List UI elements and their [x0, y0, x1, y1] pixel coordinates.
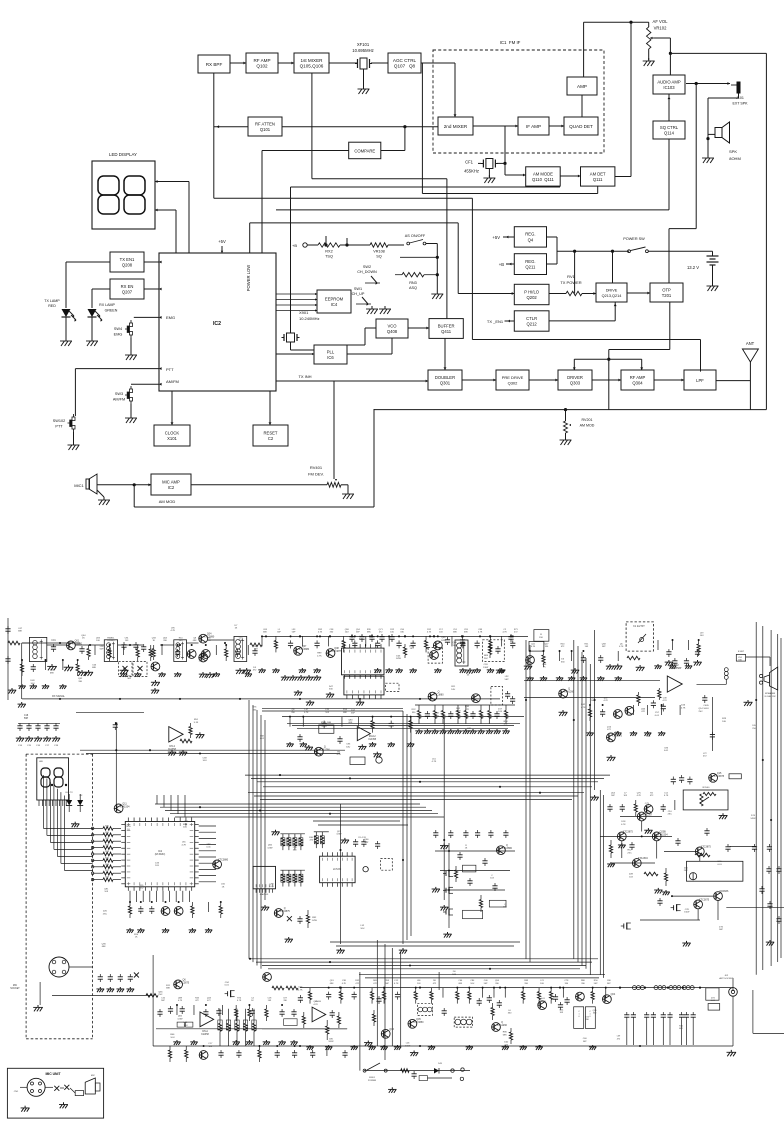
svg-text:56P: 56P — [100, 649, 104, 651]
svg-text:TX LAMP: TX LAMP — [44, 299, 60, 303]
svg-text:EMG: EMG — [114, 333, 123, 337]
svg-text:KTC3875: KTC3875 — [699, 898, 710, 901]
svg-text:BUFFER: BUFFER — [438, 323, 455, 328]
svg-text:15K: 15K — [539, 637, 543, 639]
svg-text:Q111: Q111 — [593, 177, 603, 182]
svg-text:4.7K: 4.7K — [178, 1000, 183, 1002]
svg-text:SW3: SW3 — [115, 392, 123, 396]
svg-text:4.7K: 4.7K — [342, 983, 347, 985]
svg-text:MIC AMP: MIC AMP — [162, 479, 180, 484]
svg-text:Q207: Q207 — [122, 290, 133, 295]
svg-text:RV1: RV1 — [567, 274, 575, 279]
svg-text:4.7K: 4.7K — [478, 632, 483, 634]
svg-text:SW102: SW102 — [53, 419, 65, 423]
svg-text:56P: 56P — [594, 983, 598, 985]
svg-text:4.7K: 4.7K — [581, 707, 586, 709]
svg-text:CN1: CN1 — [14, 1091, 19, 1093]
svg-text:Q04: Q04 — [611, 993, 616, 996]
svg-text:SPK: SPK — [729, 149, 737, 154]
svg-text:68K: 68K — [50, 672, 54, 674]
svg-text:4.7K: 4.7K — [637, 795, 642, 797]
svg-text:KTC3875: KTC3875 — [701, 845, 712, 848]
svg-text:RX EN: RX EN — [121, 284, 134, 289]
svg-text:KTA1266: KTA1266 — [497, 1024, 507, 1027]
svg-text:OTP: OTP — [662, 287, 671, 292]
svg-text:56P: 56P — [127, 678, 131, 680]
svg-text:AM MOD: AM MOD — [159, 499, 176, 504]
svg-text:68K: 68K — [263, 632, 267, 634]
svg-text:4.7K: 4.7K — [171, 630, 176, 632]
svg-text:4.7K: 4.7K — [239, 640, 244, 642]
svg-text:68K: 68K — [503, 1034, 507, 1036]
svg-text:4.7K: 4.7K — [313, 1004, 318, 1006]
svg-text:100U: 100U — [703, 708, 709, 710]
svg-text:Q212: Q212 — [527, 322, 538, 327]
svg-text:4.7K: 4.7K — [304, 712, 309, 714]
svg-text:EMG: EMG — [166, 315, 175, 320]
svg-text:10U: 10U — [96, 640, 100, 642]
svg-text:56P: 56P — [277, 632, 281, 634]
svg-text:(M-SMC): (M-SMC) — [155, 852, 166, 856]
svg-text:4.7K: 4.7K — [531, 646, 536, 648]
svg-text:Q101: Q101 — [260, 127, 271, 132]
svg-text:PTT: PTT — [55, 425, 63, 429]
svg-text:4.7K: 4.7K — [394, 983, 399, 985]
svg-text:AF VOL: AF VOL — [653, 19, 669, 24]
svg-text:POWER SW: POWER SW — [623, 237, 645, 241]
svg-text:56P: 56P — [484, 983, 488, 985]
svg-text:56P: 56P — [607, 983, 611, 985]
svg-text:2SC: 2SC — [752, 728, 757, 730]
svg-text:2SC: 2SC — [668, 814, 673, 816]
svg-text:C01: C01 — [51, 639, 56, 642]
svg-text:LED DISPLAY: LED DISPLAY — [109, 152, 137, 157]
svg-text:COMPARE: COMPARE — [354, 148, 375, 153]
svg-text:68K: 68K — [679, 1028, 683, 1030]
svg-text:KTA1266: KTA1266 — [320, 749, 330, 752]
svg-text:RX SIGNAL: RX SIGNAL — [52, 695, 65, 698]
svg-text:56P: 56P — [292, 632, 296, 634]
svg-text:56P: 56P — [24, 718, 29, 720]
svg-text:RX LAMP: RX LAMP — [99, 303, 115, 307]
svg-text:IC1 FM IF: IC1 FM IF — [500, 40, 521, 45]
svg-text:ANT SOCKET: ANT SOCKET — [719, 977, 734, 980]
svg-text:IC103: IC103 — [663, 85, 675, 90]
svg-text:AMP: AMP — [577, 84, 587, 89]
svg-text:RESET: RESET — [264, 430, 278, 435]
svg-text:SQ: SQ — [376, 255, 382, 259]
svg-text:Q06: Q06 — [389, 1028, 394, 1031]
svg-text:10U: 10U — [470, 983, 474, 985]
svg-text:LPF: LPF — [696, 378, 704, 383]
svg-text:X901: X901 — [299, 310, 309, 315]
svg-text:68K: 68K — [18, 631, 22, 633]
svg-text:10U: 10U — [203, 760, 207, 762]
svg-text:AUDIO AMP: AUDIO AMP — [657, 79, 680, 84]
svg-text:SPEAKER: SPEAKER — [765, 692, 776, 695]
svg-text:Q303: Q303 — [570, 381, 581, 386]
svg-text:56P: 56P — [356, 632, 360, 634]
svg-text:68K: 68K — [453, 632, 457, 634]
svg-text:PLL: PLL — [327, 349, 335, 354]
svg-text:1/4W: 1/4W — [541, 1001, 546, 1003]
svg-text:CH_UP: CH_UP — [352, 292, 365, 296]
svg-text:TX POWER: TX POWER — [560, 280, 581, 285]
svg-text:KTC3875: KTC3875 — [331, 650, 342, 653]
svg-text:IC5-A: IC5-A — [202, 1030, 208, 1033]
svg-text:RV500: RV500 — [703, 787, 710, 789]
svg-text:68K: 68K — [102, 946, 106, 948]
svg-text:2SC: 2SC — [199, 661, 204, 663]
svg-text:68K: 68K — [193, 640, 197, 642]
svg-text:+B: +B — [292, 243, 297, 248]
svg-text:10U: 10U — [183, 827, 187, 829]
svg-text:10U: 10U — [179, 640, 183, 642]
svg-text:AM DET: AM DET — [590, 171, 606, 176]
svg-text:56P: 56P — [719, 929, 723, 931]
svg-text:RG3-2: RG3-2 — [369, 736, 376, 738]
svg-text:4.7K: 4.7K — [427, 632, 432, 634]
svg-text:Q202: Q202 — [527, 295, 538, 300]
svg-text:4.7K: 4.7K — [664, 795, 669, 797]
svg-text:RF AMP: RF AMP — [253, 58, 270, 63]
svg-text:KTC3880: KTC3880 — [502, 847, 513, 850]
svg-text:CTLR: CTLR — [526, 316, 537, 321]
svg-text:AM/FM: AM/FM — [113, 398, 125, 402]
svg-text:P HI/LO: P HI/LO — [524, 289, 540, 294]
svg-text:C18: C18 — [24, 715, 29, 717]
svg-text:8 OHM 2W: 8 OHM 2W — [765, 696, 777, 698]
svg-text:POWER LOW: POWER LOW — [246, 265, 251, 292]
svg-text:Q208: Q208 — [122, 263, 133, 268]
svg-text:SW4: SW4 — [114, 327, 122, 331]
svg-text:AM MOD: AM MOD — [580, 424, 595, 428]
svg-text:REG.: REG. — [525, 232, 535, 237]
svg-text:56P: 56P — [602, 646, 606, 648]
svg-text:R 4R7: R 4R7 — [738, 651, 745, 653]
svg-text:ANT: ANT — [746, 341, 755, 346]
svg-text:SQ CTRL: SQ CTRL — [660, 125, 679, 130]
svg-text:4.7K: 4.7K — [237, 1000, 242, 1002]
svg-text:KTA1504: KTA1504 — [658, 833, 668, 836]
svg-text:TX _EN1: TX _EN1 — [487, 319, 504, 324]
svg-text:KTA1504: KTA1504 — [638, 857, 648, 860]
svg-text:KTC3875: KTC3875 — [280, 910, 291, 913]
svg-text:KIA358: KIA358 — [369, 738, 377, 741]
svg-text:Q213,Q214: Q213,Q214 — [602, 294, 622, 298]
svg-text:10.240MHz: 10.240MHz — [299, 316, 319, 321]
svg-text:KTC3875: KTC3875 — [714, 775, 725, 778]
svg-text:MIC: MIC — [13, 985, 18, 987]
svg-text:POWER: POWER — [368, 1080, 377, 1082]
svg-text:IC2: IC2 — [168, 485, 175, 490]
svg-text:CF1: CF1 — [465, 160, 474, 165]
svg-text:10U: 10U — [139, 888, 143, 890]
svg-text:10U: 10U — [170, 1037, 174, 1039]
svg-text:Q110 Q111: Q110 Q111 — [532, 177, 555, 182]
svg-text:8OHM: 8OHM — [729, 156, 741, 161]
svg-text:10.695MHz: 10.695MHz — [352, 48, 373, 53]
svg-text:KTC3880: KTC3880 — [433, 694, 444, 697]
svg-text:K1 2A/7FT: K1 2A/7FT — [633, 625, 645, 628]
svg-text:4.7K: 4.7K — [621, 824, 626, 826]
svg-text:SW1: SW1 — [354, 287, 362, 291]
svg-text:RF ATTEN: RF ATTEN — [255, 121, 275, 126]
svg-text:AM/FM: AM/FM — [166, 379, 179, 384]
svg-text:PRE DRIVE: PRE DRIVE — [502, 375, 524, 380]
svg-text:ASQ: ASQ — [409, 286, 417, 290]
svg-text:2SC: 2SC — [158, 994, 163, 996]
svg-text:PTT: PTT — [166, 367, 174, 372]
svg-text:KTC3880: KTC3880 — [413, 1021, 424, 1024]
svg-text:10U: 10U — [390, 632, 394, 634]
svg-text:68K: 68K — [92, 667, 96, 669]
svg-text:KTA1266: KTA1266 — [564, 691, 574, 694]
svg-text:KTC3880: KTC3880 — [299, 648, 310, 651]
svg-text:Q304: Q304 — [632, 381, 643, 386]
svg-text:T201: T201 — [662, 293, 672, 298]
svg-text:68K: 68K — [330, 983, 334, 985]
svg-text:2nd MIXER: 2nd MIXER — [444, 124, 468, 129]
svg-text:4.7K: 4.7K — [337, 754, 342, 756]
svg-text:MIC1: MIC1 — [74, 483, 84, 488]
svg-text:SOCKET: SOCKET — [10, 988, 20, 990]
svg-text:XF101: XF101 — [357, 42, 370, 47]
svg-text:RED: RED — [48, 304, 56, 308]
svg-text:KD9936: KD9936 — [720, 890, 729, 893]
svg-text:KTC3875: KTC3875 — [179, 981, 190, 984]
svg-text:DOUBLER: DOUBLER — [435, 375, 455, 380]
svg-text:10U: 10U — [722, 721, 726, 723]
svg-text:DRIVER: DRIVER — [567, 375, 583, 380]
svg-text:Q107 Q8: Q107 Q8 — [394, 64, 416, 69]
svg-text:FM DEV.: FM DEV. — [308, 472, 324, 477]
svg-text:Q211: Q211 — [525, 265, 536, 270]
svg-text:GREEN: GREEN — [105, 309, 118, 313]
svg-text:EXT SPK: EXT SPK — [732, 102, 748, 106]
svg-text:4.7K: 4.7K — [681, 708, 686, 710]
svg-text:SW2: SW2 — [363, 265, 371, 269]
svg-text:Q4: Q4 — [528, 238, 534, 243]
svg-text:REG.: REG. — [525, 259, 535, 264]
svg-text:56P: 56P — [385, 983, 389, 985]
svg-text:56P: 56P — [364, 842, 368, 844]
svg-text:KIA358: KIA358 — [201, 1033, 209, 1036]
svg-text:AGC CTRL: AGC CTRL — [393, 58, 417, 63]
svg-text:4.7K: 4.7K — [298, 990, 303, 992]
svg-text:MIC: MIC — [91, 1075, 95, 1077]
svg-text:56P: 56P — [611, 795, 615, 797]
svg-text:KBC307: KBC307 — [643, 814, 653, 817]
svg-text:CH_DOWN: CH_DOWN — [357, 270, 377, 274]
svg-text:56P: 56P — [351, 713, 355, 715]
svg-text:455KHz: 455KHz — [464, 169, 479, 174]
svg-text:4.7K: 4.7K — [318, 632, 323, 634]
svg-text:10U: 10U — [700, 635, 704, 637]
svg-text:68K: 68K — [367, 632, 371, 634]
svg-text:Q102: Q102 — [256, 64, 268, 69]
svg-text:2SC: 2SC — [684, 870, 689, 872]
svg-text:MIC UNIT: MIC UNIT — [45, 1072, 61, 1076]
svg-text:2SC: 2SC — [627, 852, 632, 854]
svg-text:RF AMP: RF AMP — [630, 375, 646, 380]
svg-text:2SC: 2SC — [698, 711, 703, 713]
svg-text:4.7K: 4.7K — [603, 700, 608, 702]
svg-text:X101: X101 — [167, 436, 177, 441]
svg-text:AM MODE: AM MODE — [533, 171, 553, 176]
svg-text:VR108: VR108 — [373, 250, 385, 254]
svg-text:TSQ: TSQ — [325, 255, 333, 259]
svg-text:4.7K: 4.7K — [503, 632, 508, 634]
svg-text:Q114: Q114 — [664, 131, 675, 136]
svg-text:LED TX: LED TX — [65, 792, 73, 794]
svg-text:4.7K: 4.7K — [662, 700, 667, 702]
svg-text:QUAD DET: QUAD DET — [569, 124, 593, 129]
svg-text:IC6: IC6 — [327, 355, 334, 360]
svg-text:Q411: Q411 — [441, 329, 452, 334]
svg-text:4.7K: 4.7K — [317, 655, 322, 657]
svg-text:0: 0 — [578, 1016, 579, 1018]
svg-text:68K: 68K — [464, 632, 468, 634]
svg-text:RN3: RN3 — [409, 281, 417, 285]
svg-text:KTC3875: KTC3875 — [623, 830, 634, 833]
svg-text:10U: 10U — [183, 1025, 187, 1027]
svg-text:Q408: Q408 — [387, 329, 398, 334]
svg-text:DRIVE: DRIVE — [606, 288, 618, 292]
svg-text:10U: 10U — [346, 746, 350, 748]
svg-text:68K: 68K — [343, 712, 347, 714]
svg-text:AS ON/OFF: AS ON/OFF — [405, 234, 426, 238]
svg-text:SW01: SW01 — [369, 1077, 376, 1079]
svg-text:1st MIXER: 1st MIXER — [301, 58, 324, 63]
svg-text:56P: 56P — [452, 974, 456, 976]
svg-text:KTC3880: KTC3880 — [218, 858, 229, 861]
svg-text:C2: C2 — [268, 436, 274, 441]
svg-text:10U: 10U — [360, 928, 364, 930]
svg-text:IC4: IC4 — [331, 302, 338, 307]
svg-text:VR102: VR102 — [654, 26, 667, 31]
svg-text:+5V: +5V — [492, 235, 500, 240]
svg-text:IF AMP: IF AMP — [526, 124, 541, 129]
svg-text:2SC: 2SC — [503, 907, 508, 909]
svg-text:0: 0 — [589, 1016, 590, 1018]
svg-text:RV201: RV201 — [582, 418, 593, 422]
svg-text:TX EN1: TX EN1 — [120, 257, 135, 262]
svg-text:10U: 10U — [345, 632, 349, 634]
svg-text:KIA7805: KIA7805 — [260, 893, 269, 896]
svg-text:5.1K: 5.1K — [194, 722, 199, 724]
svg-text:68K: 68K — [348, 722, 352, 724]
svg-text:56P: 56P — [583, 1041, 587, 1043]
svg-text:4.7K: 4.7K — [619, 646, 624, 648]
svg-text:68K: 68K — [166, 988, 170, 990]
svg-text:68K: 68K — [458, 983, 462, 985]
svg-text:56P: 56P — [161, 1000, 165, 1002]
svg-text:CLOCK: CLOCK — [165, 430, 180, 435]
svg-text:Q302: Q302 — [508, 381, 519, 386]
svg-text:+B: +B — [499, 262, 504, 267]
svg-text:C405: C405 — [703, 705, 709, 707]
svg-text:VCO: VCO — [387, 323, 397, 328]
svg-text:10U: 10U — [540, 983, 544, 985]
svg-text:RV401: RV401 — [310, 465, 323, 470]
svg-text:TX INH: TX INH — [298, 374, 311, 379]
svg-text:4.7K: 4.7K — [432, 761, 437, 763]
svg-text:LC7232: LC7232 — [333, 868, 342, 871]
svg-text:2SC: 2SC — [103, 913, 108, 915]
svg-text:10U: 10U — [451, 689, 455, 691]
svg-text:2SC: 2SC — [484, 658, 489, 660]
svg-text:LED: LED — [39, 761, 44, 763]
svg-text:10U: 10U — [30, 683, 34, 685]
svg-text:4.7K: 4.7K — [182, 844, 187, 846]
svg-text:IC2: IC2 — [213, 321, 221, 327]
svg-text:EEPROM: EEPROM — [325, 296, 344, 301]
svg-text:56P: 56P — [505, 679, 509, 681]
svg-text:+5V: +5V — [218, 239, 226, 244]
svg-text:13.2 V: 13.2 V — [687, 265, 699, 270]
svg-text:Q105,Q106: Q105,Q106 — [300, 64, 324, 69]
svg-text:RX2: RX2 — [325, 250, 332, 254]
svg-text:Q301: Q301 — [440, 381, 451, 386]
svg-text:68K: 68K — [207, 640, 211, 642]
svg-text:RX BPF: RX BPF — [206, 62, 223, 67]
svg-text:KTA1504: KTA1504 — [120, 805, 130, 808]
